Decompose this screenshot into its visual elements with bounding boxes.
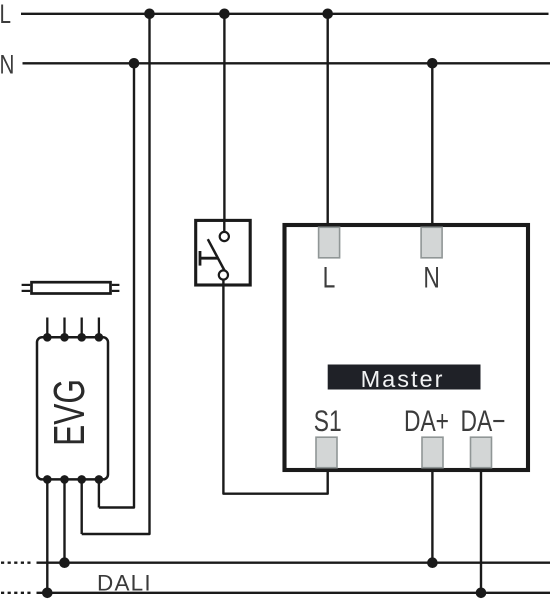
node junction on L at switch branch xyxy=(219,9,230,20)
node junction on N at EVG branch xyxy=(129,58,140,69)
wire switch to S1 terminal xyxy=(223,280,327,494)
wire L branch down to EVG pin 3 xyxy=(82,14,150,534)
EVG pin 1 top lead xyxy=(46,318,48,338)
wire DALI line 2 xyxy=(37,592,550,594)
switch lever xyxy=(208,239,225,270)
lamp pin top-right xyxy=(112,284,120,286)
node EVG pin 2 top xyxy=(60,333,69,342)
wire L branch to master L terminal xyxy=(327,14,329,226)
wire EVG pin 3 down xyxy=(80,479,82,534)
svg-text:EVG: EVG xyxy=(45,379,94,446)
svg-text:DA−: DA− xyxy=(461,404,506,438)
EVG pin 4 top lead xyxy=(98,318,100,338)
wire L line xyxy=(21,13,549,15)
EVG pin 3 top lead xyxy=(81,318,83,338)
svg-text:L: L xyxy=(323,260,336,294)
switch actuator T-bar xyxy=(200,257,218,260)
node EVG pin 2 bottom xyxy=(60,475,69,484)
node EVG pin 1 top xyxy=(43,333,52,342)
svg-text:DALI: DALI xyxy=(97,571,152,596)
svg-text:N: N xyxy=(423,260,439,294)
node junction on L at master branch xyxy=(322,9,333,20)
node EVG pin 3 top xyxy=(77,333,86,342)
node EVG pin 4 bottom xyxy=(95,475,104,484)
wire DALI line 1 xyxy=(37,562,550,564)
wire DA+ to DALI line 1 xyxy=(431,470,433,563)
lamp tube xyxy=(32,282,111,293)
node junction DA+ on DALI line 1 xyxy=(427,557,438,568)
switch bottom contact xyxy=(219,270,228,279)
ballast EVG box xyxy=(37,337,108,479)
op device Master box xyxy=(285,225,529,470)
terminal N of master xyxy=(421,227,442,257)
wire switch interior feed xyxy=(223,220,225,233)
wire EVG pin 4 down xyxy=(98,479,100,507)
node junction EVG pin2 on DALI line 1 xyxy=(59,557,70,568)
wire EVG pin 1 to DALI line 2 xyxy=(46,479,48,592)
wire N branch down to EVG pin 4 xyxy=(99,63,134,507)
svg-text:N: N xyxy=(0,50,14,80)
svg-text:DA+: DA+ xyxy=(404,404,449,438)
wire EVG pin 2 to DALI line 1 xyxy=(63,479,65,562)
lamp pin top-left xyxy=(22,284,31,286)
wire DALI line 1 dashed end xyxy=(1,562,31,564)
lamp pin bottom-left xyxy=(22,290,31,292)
terminal S1 of master xyxy=(316,437,337,468)
node junction DA- on DALI line 2 xyxy=(476,588,487,599)
switch S box xyxy=(196,220,251,285)
svg-text:S1: S1 xyxy=(314,404,342,438)
EVG pin 2 top lead xyxy=(63,318,65,338)
svg-text:L: L xyxy=(0,0,11,29)
node EVG pin 4 top xyxy=(95,333,104,342)
wire DALI line 2 dashed end xyxy=(1,592,31,594)
node junction on L at EVG branch xyxy=(144,9,155,20)
label Master band xyxy=(328,365,481,390)
wire DA- to DALI line 2 xyxy=(480,470,482,593)
wire N branch to master N terminal xyxy=(431,63,433,226)
terminal DA+ of master xyxy=(422,437,443,468)
wire N line xyxy=(23,62,550,64)
svg-text:Master: Master xyxy=(361,366,445,392)
node junction EVG pin1 on DALI line 2 xyxy=(42,588,53,599)
switch top contact xyxy=(220,232,229,241)
node junction on N at master branch xyxy=(427,58,438,69)
node EVG pin 3 bottom xyxy=(77,475,86,484)
terminal DA- of master xyxy=(471,437,492,468)
terminal L of master xyxy=(319,227,340,257)
node EVG pin 1 bottom xyxy=(43,475,52,484)
wire L branch down to switch xyxy=(223,14,225,220)
lamp pin bottom-right xyxy=(112,290,120,292)
